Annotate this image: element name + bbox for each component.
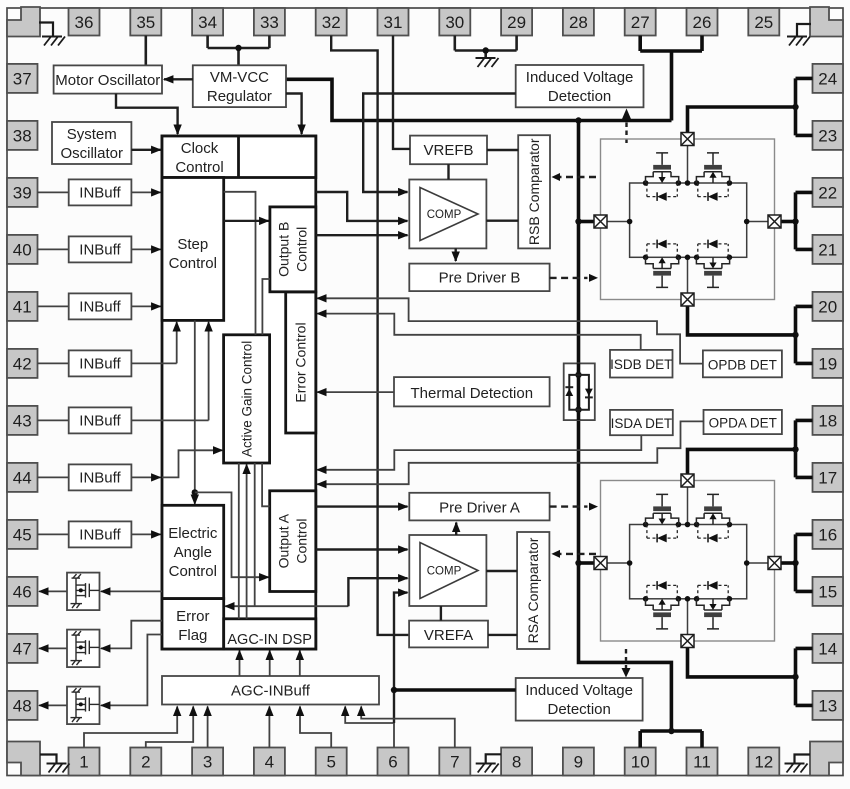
- svg-text:INBuff: INBuff: [79, 470, 121, 487]
- svg-text:20: 20: [818, 297, 837, 316]
- svg-text:VREFB: VREFB: [423, 142, 473, 159]
- svg-text:Flag: Flag: [178, 627, 207, 644]
- svg-text:14: 14: [818, 639, 837, 658]
- svg-text:Control: Control: [294, 227, 310, 272]
- svg-text:INBuff: INBuff: [79, 185, 121, 202]
- svg-text:Control: Control: [169, 255, 217, 272]
- svg-text:9: 9: [574, 753, 583, 772]
- svg-text:Induced Voltage: Induced Voltage: [526, 69, 634, 86]
- svg-text:RSB Comparator: RSB Comparator: [526, 138, 542, 245]
- svg-text:12: 12: [754, 753, 773, 772]
- svg-text:Error Control: Error Control: [293, 322, 309, 402]
- svg-text:COMP: COMP: [427, 209, 462, 221]
- svg-text:42: 42: [13, 354, 32, 373]
- svg-text:System: System: [67, 126, 117, 143]
- svg-text:45: 45: [13, 525, 32, 544]
- svg-text:4: 4: [265, 753, 274, 772]
- svg-text:Control: Control: [175, 159, 223, 176]
- svg-text:8: 8: [512, 753, 521, 772]
- svg-text:37: 37: [13, 69, 32, 88]
- svg-text:3: 3: [203, 753, 212, 772]
- svg-text:7: 7: [450, 753, 459, 772]
- svg-text:6: 6: [388, 753, 397, 772]
- svg-text:25: 25: [754, 13, 773, 32]
- svg-text:27: 27: [631, 13, 650, 32]
- svg-text:13: 13: [818, 696, 837, 715]
- svg-text:36: 36: [75, 13, 94, 32]
- svg-text:INBuff: INBuff: [79, 356, 121, 373]
- svg-text:5: 5: [326, 753, 335, 772]
- svg-text:31: 31: [384, 13, 403, 32]
- svg-text:Motor Oscillator: Motor Oscillator: [55, 72, 160, 89]
- svg-text:21: 21: [818, 240, 837, 259]
- svg-text:AGC-IN DSP: AGC-IN DSP: [227, 632, 312, 648]
- svg-text:VM-VCC: VM-VCC: [210, 69, 269, 86]
- svg-text:Output B: Output B: [276, 222, 292, 277]
- svg-text:22: 22: [818, 183, 837, 202]
- svg-text:Regulator: Regulator: [207, 88, 272, 105]
- svg-text:46: 46: [13, 582, 32, 601]
- svg-text:ISDA DET: ISDA DET: [611, 416, 673, 431]
- svg-text:INBuff: INBuff: [79, 527, 121, 544]
- svg-text:Induced Voltage: Induced Voltage: [525, 682, 633, 699]
- svg-text:Error: Error: [176, 608, 209, 625]
- svg-text:17: 17: [818, 468, 837, 487]
- svg-text:40: 40: [13, 240, 32, 259]
- svg-text:Angle: Angle: [174, 544, 212, 561]
- svg-text:11: 11: [693, 753, 711, 772]
- svg-text:OPDB DET: OPDB DET: [708, 357, 777, 372]
- svg-text:Control: Control: [169, 563, 217, 580]
- svg-text:Active Gain Control: Active Gain Control: [239, 341, 254, 457]
- svg-text:AGC-INBuff: AGC-INBuff: [231, 683, 311, 700]
- svg-text:23: 23: [818, 126, 837, 145]
- svg-text:Thermal Detection: Thermal Detection: [411, 385, 534, 402]
- svg-text:OPDA DET: OPDA DET: [709, 416, 777, 431]
- svg-text:Output A: Output A: [276, 513, 292, 568]
- svg-text:Detection: Detection: [548, 701, 611, 718]
- svg-text:ISDB DET: ISDB DET: [610, 357, 672, 372]
- svg-text:28: 28: [569, 13, 588, 32]
- svg-text:29: 29: [507, 13, 526, 32]
- svg-text:COMP: COMP: [427, 566, 462, 578]
- svg-text:38: 38: [13, 126, 32, 145]
- svg-text:INBuff: INBuff: [79, 242, 121, 259]
- svg-text:VREFA: VREFA: [424, 627, 473, 644]
- svg-text:44: 44: [13, 468, 32, 487]
- svg-text:10: 10: [631, 753, 650, 772]
- svg-text:32: 32: [322, 13, 341, 32]
- svg-text:41: 41: [13, 297, 32, 316]
- svg-text:Pre Driver A: Pre Driver A: [439, 500, 520, 517]
- svg-text:Pre Driver B: Pre Driver B: [439, 270, 521, 287]
- svg-text:Electric: Electric: [168, 525, 218, 542]
- svg-text:15: 15: [818, 582, 837, 601]
- svg-text:24: 24: [818, 69, 837, 88]
- svg-text:Detection: Detection: [548, 88, 611, 105]
- svg-text:INBuff: INBuff: [79, 413, 121, 430]
- svg-text:Step: Step: [177, 236, 208, 253]
- svg-text:Control: Control: [294, 519, 310, 564]
- svg-text:16: 16: [818, 525, 837, 544]
- svg-text:26: 26: [693, 13, 712, 32]
- svg-text:47: 47: [13, 639, 32, 658]
- svg-text:35: 35: [136, 13, 155, 32]
- svg-text:39: 39: [13, 183, 32, 202]
- svg-text:34: 34: [198, 13, 217, 32]
- svg-text:2: 2: [141, 753, 150, 772]
- svg-text:Oscillator: Oscillator: [60, 145, 123, 162]
- svg-text:18: 18: [818, 411, 837, 430]
- svg-text:1: 1: [79, 753, 88, 772]
- svg-text:Clock: Clock: [181, 140, 219, 157]
- svg-text:30: 30: [445, 13, 464, 32]
- svg-text:INBuff: INBuff: [79, 299, 121, 316]
- svg-text:43: 43: [13, 411, 32, 430]
- svg-text:19: 19: [818, 354, 837, 373]
- svg-text:33: 33: [260, 13, 279, 32]
- svg-text:RSA Comparator: RSA Comparator: [525, 537, 541, 643]
- svg-text:48: 48: [13, 696, 32, 715]
